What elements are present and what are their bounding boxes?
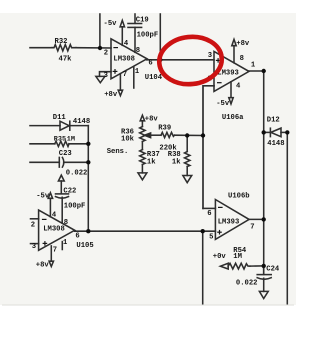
svg-text:7: 7 xyxy=(123,71,127,79)
node D12 right xyxy=(285,130,289,134)
svg-text:3: 3 xyxy=(104,72,108,80)
svg-text:4: 4 xyxy=(52,211,57,219)
capacitor C22 xyxy=(56,193,69,195)
svg-text:C22: C22 xyxy=(63,188,76,196)
node R35 xyxy=(86,142,90,146)
wire pin4 -5v U106a xyxy=(230,82,232,98)
wire pin7 +8v U105 xyxy=(50,246,52,261)
pot R36 +8v arrow xyxy=(140,115,144,121)
svg-text:U105: U105 xyxy=(76,242,93,250)
wire U105 output to U106b pin5 xyxy=(75,230,216,232)
resistor R39 xyxy=(161,132,175,137)
svg-text:7: 7 xyxy=(53,247,57,255)
op-amp U105 xyxy=(39,210,75,250)
plus U106b xyxy=(217,231,222,233)
diode D11 xyxy=(30,125,60,127)
wire R36 to R37 xyxy=(141,142,143,150)
node U104 out xyxy=(158,58,162,62)
wire U106b output xyxy=(249,218,264,220)
svg-text:2: 2 xyxy=(31,221,35,229)
resistor R37 xyxy=(140,150,145,165)
plus U104 xyxy=(113,70,118,72)
wire vertical above node xyxy=(159,14,161,60)
svg-text:4148: 4148 xyxy=(73,118,90,126)
diode D12 xyxy=(264,131,271,133)
wire pin4 -5v xyxy=(121,27,123,46)
node U105 out xyxy=(86,229,90,233)
svg-text:-5v: -5v xyxy=(216,100,230,108)
svg-text:8: 8 xyxy=(136,47,140,55)
svg-text:6: 6 xyxy=(207,210,211,218)
svg-text:R35: R35 xyxy=(54,135,66,143)
wire pin6 U106b stub xyxy=(203,207,215,209)
wire node column bottom xyxy=(202,231,204,304)
svg-text:U106b: U106b xyxy=(228,193,250,201)
svg-text:LM308: LM308 xyxy=(43,226,65,234)
resistor R32 xyxy=(52,45,76,51)
svg-text:100pF: 100pF xyxy=(64,203,86,211)
svg-text:0.022: 0.022 xyxy=(236,280,258,288)
svg-text:R32: R32 xyxy=(55,38,68,46)
svg-text:-5v: -5v xyxy=(36,193,50,201)
capacitor C24 xyxy=(263,266,265,275)
svg-text:47k: 47k xyxy=(59,56,73,64)
plus U106a xyxy=(216,59,221,61)
wire pin1 stub U104 xyxy=(133,67,135,89)
red annotation ellipse xyxy=(157,34,224,87)
resistor R36 xyxy=(140,127,145,142)
wire R32 to pin2 xyxy=(76,47,111,49)
svg-text:1: 1 xyxy=(135,68,140,76)
arrow above C22 xyxy=(58,175,64,181)
scan paper background xyxy=(0,13,296,305)
wire R32 input xyxy=(30,47,52,49)
wire pin2 stub U105 xyxy=(31,218,39,220)
resistor R35 xyxy=(30,143,55,145)
capacitor C19 xyxy=(134,14,136,23)
svg-text:4148: 4148 xyxy=(267,140,284,148)
svg-text:+8v: +8v xyxy=(145,116,159,124)
wire R39 to node xyxy=(175,134,204,136)
node C24 xyxy=(262,264,266,268)
svg-text:1k: 1k xyxy=(147,158,156,166)
svg-text:0.022: 0.022 xyxy=(66,170,88,178)
svg-text:8: 8 xyxy=(240,55,244,63)
op-amp U104 xyxy=(111,39,147,79)
node R32/pin2 xyxy=(98,46,102,50)
minus U104 xyxy=(113,47,118,49)
wire feedback vertical xyxy=(87,126,89,232)
svg-text:1M: 1M xyxy=(67,135,75,143)
wire pin8 +8v U106a xyxy=(233,46,235,63)
svg-text:Sens.: Sens. xyxy=(107,148,129,156)
svg-text:LM308: LM308 xyxy=(113,56,135,64)
ground at pin3 U104 xyxy=(100,72,112,77)
svg-text:C19: C19 xyxy=(136,17,149,25)
wire U106a output xyxy=(249,71,264,274)
svg-text:+8v: +8v xyxy=(236,40,250,48)
svg-text:1: 1 xyxy=(63,239,68,247)
svg-text:C24: C24 xyxy=(266,266,280,274)
resistor R54 with +0v arrow xyxy=(220,263,228,269)
wiper arrow R36 xyxy=(144,133,150,138)
svg-text:6: 6 xyxy=(75,233,79,241)
ground under C24 xyxy=(259,291,268,298)
wire vertical feedback top xyxy=(99,14,101,48)
node C23 xyxy=(86,160,90,164)
node U106b out xyxy=(262,217,266,221)
ground under R38 xyxy=(183,176,192,183)
op-amp U106b xyxy=(215,200,249,240)
svg-text:R39: R39 xyxy=(158,124,171,132)
node pin5 xyxy=(201,229,205,233)
op-amp U106a xyxy=(214,51,249,91)
svg-text:U106a: U106a xyxy=(222,114,244,122)
svg-text:+0v: +0v xyxy=(213,253,227,261)
svg-text:3: 3 xyxy=(32,243,36,251)
ground under R37 xyxy=(138,173,147,180)
svg-text:3: 3 xyxy=(208,52,212,60)
svg-text:LM393: LM393 xyxy=(218,219,240,227)
node D12 left xyxy=(262,130,266,134)
svg-text:10k: 10k xyxy=(121,135,135,143)
svg-text:1: 1 xyxy=(251,62,256,70)
svg-text:4: 4 xyxy=(236,82,241,90)
scan bottom edge xyxy=(2,304,294,306)
+/- symbols xyxy=(42,48,223,246)
node threshold xyxy=(201,133,205,137)
svg-text:5: 5 xyxy=(209,234,213,242)
svg-text:6: 6 xyxy=(148,59,152,67)
svg-text:D11: D11 xyxy=(53,114,67,122)
capacitor C23 xyxy=(30,161,59,163)
plus U105 xyxy=(43,242,48,244)
wire right vertical xyxy=(286,132,288,303)
node R39/R38 xyxy=(185,133,189,137)
wire R37 to ground xyxy=(141,165,143,173)
minus U106b xyxy=(218,206,223,208)
svg-text:-5v: -5v xyxy=(104,20,118,28)
svg-text:+8v: +8v xyxy=(104,91,118,99)
wire pin3 stub U105 xyxy=(31,243,39,245)
svg-text:7: 7 xyxy=(250,223,254,231)
wire pin1 stub U105 xyxy=(61,242,63,250)
-5v arrow U104 xyxy=(120,20,124,26)
wire pin7 +8v U104 xyxy=(119,74,121,91)
resistor R38 xyxy=(186,136,188,152)
node U106a out corner xyxy=(262,69,266,73)
svg-text:+8v: +8v xyxy=(36,262,50,270)
wire pin2 U106a xyxy=(203,86,214,209)
svg-text:C23: C23 xyxy=(59,150,72,158)
wire U104 output to U106a pin3 xyxy=(147,59,214,61)
svg-text:1k: 1k xyxy=(172,158,181,166)
svg-text:4: 4 xyxy=(124,40,129,48)
svg-text:1M: 1M xyxy=(233,253,242,261)
svg-text:2: 2 xyxy=(104,49,108,57)
svg-text:U104: U104 xyxy=(145,74,163,82)
svg-text:100pF: 100pF xyxy=(137,32,159,40)
wire pin4 -5v U105 xyxy=(49,198,51,217)
minus U105 xyxy=(42,218,47,220)
svg-text:D12: D12 xyxy=(267,117,280,125)
minus U106a xyxy=(217,82,222,84)
